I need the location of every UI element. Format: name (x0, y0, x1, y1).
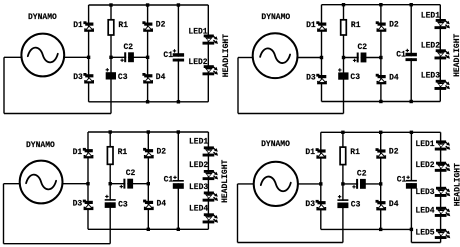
diode D1 (73, 148, 94, 159)
node T2 (379, 3, 382, 6)
svg-text:D3: D3 (73, 200, 83, 209)
wire (237, 184, 239, 243)
svg-text:D1: D1 (73, 21, 83, 30)
svg-text:HEADLIGHT: HEADLIGHT (221, 159, 230, 202)
node AC1 (319, 182, 322, 185)
capacitor C1 (396, 49, 417, 61)
wire (177, 132, 179, 229)
LED LED1 (188, 27, 218, 44)
diode D4 (376, 200, 399, 211)
svg-text:HEADLIGHT: HEADLIGHT (453, 163, 460, 206)
svg-text:C3: C3 (118, 73, 128, 82)
svg-text:DYNAMO: DYNAMO (261, 140, 290, 149)
svg-text:C1: C1 (396, 50, 406, 59)
wire (87, 132, 89, 229)
svg-text:D4: D4 (389, 200, 399, 209)
wire (238, 183, 254, 185)
wire (343, 5, 345, 114)
svg-text:LED1: LED1 (421, 11, 440, 20)
dynamo AC source (20, 141, 63, 204)
wire (344, 57, 381, 59)
LED LED4 (189, 205, 218, 224)
svg-text:R1: R1 (118, 148, 128, 157)
LED LED3 (189, 183, 218, 202)
svg-text:C1: C1 (163, 51, 173, 60)
wire (410, 5, 412, 102)
node T2 (379, 131, 382, 134)
wire (380, 132, 382, 229)
node AC2 (379, 182, 382, 185)
LED LED1 (189, 138, 218, 157)
wire (440, 132, 442, 242)
wire (237, 58, 239, 114)
svg-text:HEADLIGHT: HEADLIGHT (222, 34, 231, 77)
wire (298, 57, 322, 59)
wire (64, 56, 88, 58)
wire (343, 183, 381, 185)
diode D3 (305, 200, 326, 211)
capacitor C2 (352, 169, 366, 188)
capacitor C3 (106, 68, 128, 82)
wire (411, 242, 440, 244)
wire (4, 56, 21, 58)
wire (321, 228, 412, 230)
wire (88, 5, 90, 102)
svg-text:D3: D3 (305, 200, 315, 209)
wire (89, 101, 209, 103)
svg-text:LED2: LED2 (421, 42, 440, 51)
diode D4 (376, 74, 399, 85)
svg-text:D3: D3 (73, 73, 83, 82)
diode D3 (73, 73, 94, 84)
resistor R1 (108, 20, 128, 35)
wire (380, 5, 382, 102)
svg-text:D2: D2 (157, 147, 167, 156)
svg-text:D1: D1 (73, 148, 83, 157)
LED LED2 (189, 161, 218, 180)
capacitor C2 (120, 43, 134, 62)
node B2 (410, 228, 413, 231)
wire (321, 131, 441, 133)
resistor R1 (107, 147, 127, 165)
wire (238, 242, 343, 244)
LED LED3 (421, 72, 450, 90)
svg-text:D1: D1 (306, 21, 316, 30)
node AC2 (146, 56, 149, 59)
node B1 (379, 100, 382, 103)
svg-text:D4: D4 (157, 200, 167, 209)
svg-text:D1: D1 (305, 148, 315, 157)
node A (342, 56, 345, 59)
node B1 (146, 100, 149, 103)
wire (207, 132, 209, 229)
svg-text:C3: C3 (350, 73, 360, 82)
svg-text:C2: C2 (358, 43, 368, 52)
diode D2 (142, 21, 165, 32)
diode D1 (305, 148, 326, 159)
svg-text:LED1: LED1 (188, 27, 207, 36)
node T1 (341, 131, 344, 134)
LED LED3 (415, 187, 450, 197)
wire (111, 56, 148, 58)
diode D2 (143, 147, 166, 158)
wire (110, 183, 148, 185)
svg-text:LED3: LED3 (421, 72, 440, 81)
wire (4, 243, 111, 245)
svg-text:LED2: LED2 (415, 161, 434, 170)
wire (410, 132, 412, 229)
node A (109, 56, 112, 59)
svg-text:R1: R1 (350, 148, 360, 157)
wire (342, 132, 344, 242)
diode D1 (73, 21, 94, 32)
LED LED2 (421, 42, 450, 60)
svg-text:LED5: LED5 (415, 228, 434, 237)
node T1 (109, 130, 112, 133)
LED LED2 (415, 161, 450, 172)
node B2 (177, 228, 180, 231)
diode D4 (142, 73, 165, 84)
wire (63, 183, 89, 185)
svg-text:D3: D3 (306, 74, 316, 83)
wire (89, 4, 209, 6)
svg-text:LED3: LED3 (415, 188, 434, 197)
wire (238, 113, 344, 115)
capacitor C2 (353, 43, 367, 62)
capacitor C3 (338, 68, 360, 82)
node T3 (410, 3, 413, 6)
node B2 (410, 100, 413, 103)
diode D4 (143, 200, 166, 211)
svg-text:DYNAMO: DYNAMO (261, 13, 290, 22)
node T3 (177, 3, 180, 6)
wire (410, 229, 412, 242)
diode D3 (73, 200, 94, 211)
dynamo AC source (21, 13, 64, 76)
wire (88, 228, 208, 230)
node AC1 (320, 56, 323, 59)
wire (147, 5, 149, 102)
capacitor C1 (397, 175, 417, 188)
LED LED1 (421, 11, 450, 29)
LED LED1 (415, 140, 450, 151)
svg-text:D2: D2 (156, 21, 166, 30)
wire (298, 183, 321, 185)
capacitor C1 (164, 176, 184, 189)
svg-text:D4: D4 (156, 73, 166, 82)
node B1 (379, 228, 382, 231)
wire (3, 184, 5, 244)
diode D3 (306, 74, 327, 85)
svg-text:R1: R1 (351, 21, 361, 30)
diode D2 (376, 148, 399, 159)
resistor R1 (341, 20, 361, 35)
wire (3, 57, 5, 113)
capacitor C1 (163, 49, 184, 61)
diode D2 (376, 21, 399, 32)
wire (177, 5, 179, 102)
svg-text:D2: D2 (389, 148, 399, 157)
svg-text:R1: R1 (118, 21, 128, 30)
node AC2 (379, 56, 382, 59)
node T1 (109, 3, 112, 6)
node T3 (177, 130, 180, 133)
svg-text:C2: C2 (357, 169, 367, 178)
capacitor C3 (105, 195, 128, 210)
node A (109, 182, 112, 185)
svg-text:LED2: LED2 (188, 58, 207, 67)
dynamo AC source (254, 140, 298, 206)
svg-text:LED1: LED1 (189, 138, 208, 147)
wire (88, 131, 208, 133)
svg-text:C3: C3 (118, 201, 128, 210)
LED LED2 (188, 58, 218, 76)
svg-text:LED4: LED4 (415, 206, 434, 215)
node AC1 (87, 56, 90, 59)
svg-text:LED4: LED4 (189, 205, 208, 214)
svg-text:C2: C2 (124, 43, 134, 52)
wire (322, 101, 441, 103)
wire (109, 132, 111, 244)
dynamo AC source (253, 13, 298, 78)
node B2 (177, 100, 180, 103)
node AC1 (86, 182, 89, 185)
capacitor C2 (120, 169, 136, 188)
svg-text:D2: D2 (389, 21, 399, 30)
node T1 (342, 3, 345, 6)
svg-text:HEADLIGHT: HEADLIGHT (453, 33, 460, 76)
LED LED5 (415, 228, 450, 239)
svg-text:C1: C1 (164, 176, 174, 185)
svg-text:DYNAMO: DYNAMO (26, 141, 55, 150)
node T2 (146, 3, 149, 6)
wire (4, 113, 111, 115)
diode D1 (306, 21, 327, 32)
svg-text:LED3: LED3 (189, 183, 208, 192)
wire (322, 4, 441, 6)
resistor R1 (340, 147, 360, 165)
wire (238, 57, 253, 59)
wire (207, 5, 209, 102)
svg-text:C3: C3 (351, 201, 361, 210)
wire (320, 132, 322, 229)
node A (341, 182, 344, 185)
node AC2 (147, 182, 150, 185)
svg-text:LED1: LED1 (415, 140, 434, 149)
svg-text:C1: C1 (397, 175, 407, 184)
svg-text:C2: C2 (126, 169, 136, 178)
svg-text:D4: D4 (389, 74, 399, 83)
wire (4, 183, 20, 185)
svg-text:DYNAMO: DYNAMO (28, 13, 57, 22)
wire (110, 5, 112, 114)
node B1 (147, 228, 150, 231)
wire (147, 132, 149, 229)
node T3 (410, 131, 413, 134)
wire (321, 5, 323, 102)
svg-text:LED2: LED2 (189, 161, 208, 170)
node T2 (147, 130, 150, 133)
capacitor C3 (337, 195, 360, 210)
LED LED4 (415, 206, 450, 217)
wire (439, 5, 441, 102)
